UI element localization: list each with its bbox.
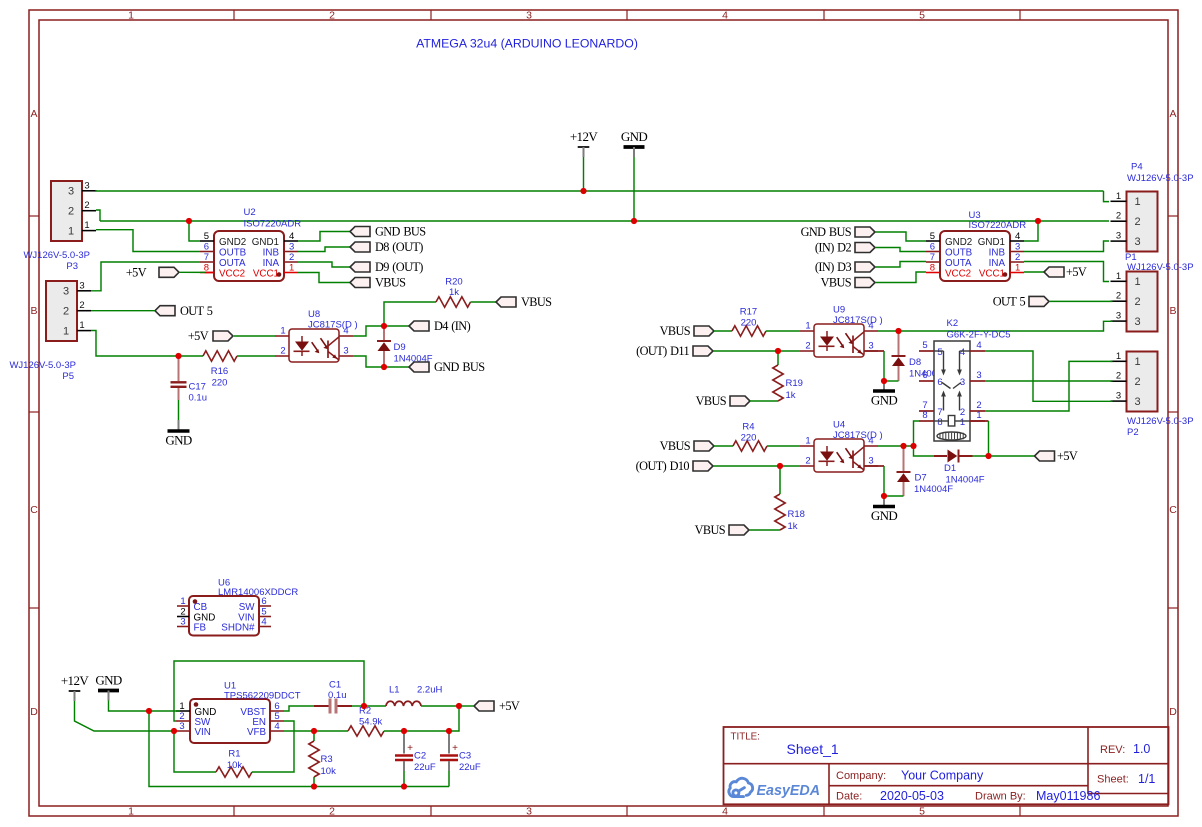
svg-text:TITLE:: TITLE:	[731, 732, 760, 743]
svg-text:2: 2	[1116, 291, 1121, 302]
svg-text:+5V: +5V	[188, 329, 209, 343]
svg-text:INB: INB	[263, 247, 280, 258]
wire VBUS to R4	[714, 445, 733, 447]
svg-text:R18: R18	[788, 509, 805, 520]
svg-text:+: +	[452, 743, 458, 754]
wire VBUS flag to R19	[750, 400, 778, 402]
svg-text:1: 1	[68, 225, 74, 237]
flag GND BUS right of D9	[409, 360, 485, 374]
diode D7	[903, 449, 905, 472]
svg-text:K2: K2	[947, 318, 959, 329]
svg-text:VBUS: VBUS	[821, 276, 852, 290]
svg-text:OUTA: OUTA	[219, 258, 246, 269]
flag VBUS at R17	[660, 324, 714, 338]
wire GND to U1 pin1	[109, 701, 181, 712]
svg-text:VFB: VFB	[247, 727, 267, 738]
svg-text:2: 2	[63, 306, 69, 318]
ground below D8	[883, 381, 885, 390]
svg-text:+12V: +12V	[570, 129, 599, 144]
svg-text:10k: 10k	[321, 766, 337, 777]
svg-text:B: B	[1169, 305, 1176, 317]
capacitor C3	[448, 731, 450, 754]
resistor R16	[203, 351, 237, 361]
wire U9 pin3 down	[864, 350, 884, 352]
svg-text:1: 1	[180, 596, 185, 607]
wire +5V flag to U8 pin1	[234, 335, 275, 337]
svg-text:OUTA: OUTA	[945, 258, 972, 269]
wire VIN to R1 feed	[174, 731, 216, 772]
svg-text:1: 1	[1134, 356, 1140, 368]
resistor R17	[732, 326, 766, 336]
svg-text:GND2: GND2	[219, 237, 246, 248]
svg-text:1: 1	[805, 436, 810, 447]
svg-text:Sheet:: Sheet:	[1097, 774, 1129, 786]
svg-text:220: 220	[212, 378, 228, 389]
svg-text:3: 3	[1116, 391, 1121, 402]
svg-text:EasyEDA: EasyEDA	[757, 783, 821, 799]
svg-text:2: 2	[68, 206, 74, 218]
resistor R20	[436, 297, 471, 307]
svg-text:C2: C2	[414, 751, 426, 762]
svg-text:OUTB: OUTB	[945, 247, 973, 258]
resistor R1	[216, 767, 252, 777]
svg-text:(OUT) D10: (OUT) D10	[636, 459, 690, 473]
svg-text:2: 2	[1015, 252, 1020, 263]
svg-text:GND: GND	[95, 673, 122, 688]
svg-text:3: 3	[526, 805, 532, 817]
svg-text:INB: INB	[989, 247, 1006, 258]
wire +5V node down to VFB row	[449, 706, 459, 731]
svg-text:1N4004F: 1N4004F	[394, 354, 433, 365]
svg-text:Drawn By:: Drawn By:	[975, 791, 1026, 803]
wire U8 pin3 to GND BUS row	[353, 356, 384, 367]
wire P5 pin2 to OUT5 flag	[91, 310, 155, 312]
svg-text:+5V: +5V	[499, 699, 520, 713]
svg-text:6: 6	[922, 370, 927, 381]
svg-text:3: 3	[63, 286, 69, 298]
svg-text:4: 4	[960, 347, 965, 358]
svg-text:GND: GND	[621, 129, 648, 144]
flag GND BUS right of U2	[350, 225, 426, 239]
optocoupler U8 JC817S	[289, 329, 339, 362]
svg-text:+5V: +5V	[1066, 265, 1087, 279]
wire +5V flag to U2 VCC2	[179, 271, 205, 273]
svg-text:2: 2	[805, 456, 810, 467]
svg-text:FB: FB	[194, 623, 207, 634]
svg-text:C1: C1	[329, 680, 341, 691]
wire R4 to U4 pin1	[767, 445, 800, 447]
wire D1 row	[914, 446, 935, 456]
svg-text:1: 1	[976, 410, 981, 421]
inductor L1	[386, 701, 421, 706]
svg-text:VCC1: VCC1	[979, 268, 1005, 279]
relay coil	[934, 420, 948, 422]
svg-text:1k: 1k	[449, 287, 459, 298]
svg-text:VCC2: VCC2	[945, 268, 971, 279]
wire node to flag	[459, 705, 474, 707]
svg-text:VBUS: VBUS	[660, 439, 691, 453]
resistor R2	[348, 726, 384, 736]
svg-text:3: 3	[1116, 231, 1121, 242]
wire D1 to +5V flag	[973, 455, 1035, 457]
svg-text:LMR14006XDDCR: LMR14006XDDCR	[218, 587, 298, 598]
svg-text:1: 1	[1116, 191, 1121, 202]
svg-text:2020-05-03: 2020-05-03	[880, 789, 944, 803]
svg-text:VBUS: VBUS	[660, 324, 691, 338]
svg-text:4: 4	[274, 721, 279, 732]
capacitor C1	[314, 705, 329, 707]
svg-text:WJ126V-5.0-3P: WJ126V-5.0-3P	[1127, 416, 1194, 427]
svg-text:GND1: GND1	[978, 237, 1005, 248]
wire U2 GND2 branch	[189, 221, 200, 241]
connector P4	[1127, 192, 1158, 252]
wire OUT5 to P1 pin2	[1049, 300, 1113, 302]
flag GND BUS left of U3	[801, 225, 875, 239]
svg-text:GND: GND	[871, 508, 898, 523]
svg-text:3: 3	[179, 721, 184, 732]
svg-text:VBUS: VBUS	[521, 295, 552, 309]
svg-text:4: 4	[722, 9, 728, 21]
flag (IN) D2	[815, 241, 875, 255]
flag +5V at U2 VCC2	[126, 266, 179, 280]
svg-text:3: 3	[1134, 396, 1140, 408]
resistor R3	[313, 731, 315, 741]
svg-text:0.1u: 0.1u	[328, 690, 347, 701]
flag VBUS at R18	[695, 523, 749, 537]
svg-text:D: D	[30, 706, 38, 718]
svg-text:6: 6	[930, 242, 935, 253]
svg-text:3: 3	[1134, 316, 1140, 328]
svg-text:(OUT) D11: (OUT) D11	[636, 344, 689, 358]
svg-text:P2: P2	[1127, 427, 1139, 438]
svg-text:1: 1	[128, 805, 134, 817]
svg-text:ISO7220ADR: ISO7220ADR	[244, 219, 302, 230]
svg-text:GND: GND	[871, 393, 898, 408]
svg-text:C: C	[30, 504, 38, 516]
wire +12V to U1 VIN	[75, 701, 177, 731]
relay contacts	[934, 350, 944, 352]
optocoupler U9 JC817S	[814, 324, 864, 357]
svg-text:3: 3	[868, 456, 873, 467]
flag D8 (OUT)	[350, 240, 423, 254]
wire R2 to caps	[384, 730, 449, 732]
flag D9 (OUT)	[350, 260, 423, 274]
svg-text:B: B	[30, 305, 37, 317]
wire P3 pin1 to U2 OUTB	[96, 230, 200, 252]
svg-text:7: 7	[204, 252, 209, 263]
svg-text:2: 2	[1134, 216, 1140, 228]
svg-text:R4: R4	[742, 422, 754, 433]
flag OUT 5 right side	[993, 295, 1049, 309]
svg-text:5: 5	[919, 805, 925, 817]
svg-text:0.1u: 0.1u	[189, 393, 208, 404]
svg-text:2: 2	[329, 9, 335, 21]
ground below C17	[178, 420, 180, 430]
wire GND BUS row to flag	[384, 366, 409, 368]
junction dots overlay	[580, 188, 586, 194]
wire U2 VCC1 to VBUS flag	[298, 273, 350, 283]
diode D8	[898, 331, 900, 356]
wire SW node to L1	[364, 705, 386, 707]
wire GND BUS to U3 GND2	[875, 232, 926, 241]
svg-text:U9: U9	[833, 305, 845, 316]
svg-text:OUT 5: OUT 5	[180, 304, 213, 318]
svg-text:U8: U8	[308, 309, 320, 320]
svg-text:3: 3	[868, 341, 873, 352]
svg-text:L1: L1	[389, 685, 400, 696]
svg-text:22uF: 22uF	[414, 762, 436, 773]
svg-text:R16: R16	[211, 366, 228, 377]
svg-text:1.0: 1.0	[1133, 742, 1150, 756]
svg-text:1: 1	[1116, 271, 1121, 282]
diode D1	[934, 455, 947, 457]
wire row2 down to U3 GND1	[1024, 221, 1038, 241]
wire VFB row	[284, 730, 348, 732]
wire C1 to SW node	[352, 705, 364, 707]
wire U9 row to P1 pin3	[899, 321, 1113, 331]
wire VBUS to R17	[714, 330, 732, 332]
connector P3	[51, 181, 82, 241]
svg-text:WJ126V-5.0-3P: WJ126V-5.0-3P	[23, 250, 90, 261]
IC U2 ISO7220ADR	[214, 231, 284, 281]
ground below D7	[883, 496, 885, 505]
svg-text:4: 4	[976, 340, 981, 351]
wire SW bootstrap loop	[174, 661, 364, 721]
svg-text:2: 2	[1134, 296, 1140, 308]
svg-text:ATMEGA 32u4 (ARDUINO LEONARDO): ATMEGA 32u4 (ARDUINO LEONARDO)	[416, 37, 638, 51]
svg-text:OUT 5: OUT 5	[993, 295, 1026, 309]
flag +5V output	[474, 699, 520, 713]
svg-text:2: 2	[1116, 371, 1121, 382]
svg-text:INA: INA	[263, 258, 280, 269]
svg-text:Your Company: Your Company	[901, 769, 984, 783]
svg-text:3: 3	[343, 346, 348, 357]
wire D10 flag to U4 pin2	[714, 465, 801, 467]
svg-text:GND2: GND2	[945, 237, 972, 248]
svg-text:2.2uH: 2.2uH	[417, 685, 442, 696]
wire U4 pin3 down	[864, 465, 884, 467]
wire K2 pin4 to P2 pin3	[985, 351, 1113, 401]
svg-text:WJ126V-5.0-3P: WJ126V-5.0-3P	[1127, 262, 1194, 273]
svg-text:R19: R19	[786, 378, 803, 389]
svg-text:2: 2	[805, 341, 810, 352]
resistor R4	[733, 441, 767, 451]
wire row1 to P4 pin1	[1104, 191, 1110, 202]
svg-text:G6K-2F-Y-DC5: G6K-2F-Y-DC5	[947, 330, 1011, 341]
resistor R18	[779, 466, 781, 494]
svg-text:1N4004F: 1N4004F	[914, 484, 953, 495]
svg-text:4: 4	[722, 805, 728, 817]
svg-text:7: 7	[930, 252, 935, 263]
svg-text:WJ126V-5.0-3P: WJ126V-5.0-3P	[9, 360, 76, 371]
svg-text:8: 8	[930, 263, 935, 274]
svg-text:1: 1	[1134, 196, 1140, 208]
flag (IN) D3	[815, 260, 875, 274]
svg-text:54.9k: 54.9k	[359, 717, 382, 728]
svg-text:1: 1	[805, 321, 810, 332]
wire D3 flag to U3 OUTA	[875, 262, 926, 268]
svg-text:5: 5	[919, 9, 925, 21]
wire P5 pin1 down to R16 row	[91, 331, 179, 357]
wire P3 pin3 to row1	[95, 190, 97, 191]
wire U3 INB to P4 pin3	[1024, 241, 1109, 252]
connector P2	[1127, 352, 1158, 412]
svg-text:D7: D7	[915, 473, 927, 484]
svg-text:5: 5	[937, 347, 942, 358]
svg-text:5: 5	[204, 231, 209, 242]
svg-text:SHDN#: SHDN#	[221, 623, 255, 634]
svg-text:D4 (IN): D4 (IN)	[434, 319, 471, 333]
diode D9	[383, 326, 385, 341]
wire L1 to +5V node	[421, 705, 459, 707]
wire D11 flag to U9 pin2	[714, 350, 801, 352]
wire VBUS flag to U3 VCC2	[875, 272, 926, 283]
wire K2 pin8 loop	[914, 421, 920, 446]
wire U2 INA to D9 flag	[298, 262, 350, 267]
svg-text:4: 4	[261, 617, 266, 628]
svg-text:1: 1	[960, 417, 965, 428]
svg-text:1: 1	[1134, 276, 1140, 288]
svg-text:+5V: +5V	[126, 266, 147, 280]
connector P1	[1127, 272, 1158, 332]
optocoupler U4 JC817S	[814, 439, 864, 472]
wire R1 to EN	[252, 721, 294, 772]
svg-text:A: A	[1169, 108, 1176, 120]
svg-text:1: 1	[63, 325, 69, 337]
svg-text:GND BUS: GND BUS	[801, 225, 852, 239]
wire K2 pin2 to P2 pin1	[985, 361, 1113, 411]
svg-text:1k: 1k	[788, 521, 798, 532]
wire D2 flag to U3 OUTB	[875, 248, 926, 252]
wire GND to row2	[633, 157, 635, 221]
wire U8 pin4 to D4 row	[353, 326, 384, 336]
svg-text:5: 5	[930, 231, 935, 242]
svg-text:GND: GND	[165, 433, 192, 448]
svg-text:1: 1	[280, 326, 285, 337]
wire ground rail	[149, 711, 449, 787]
connector P5	[46, 281, 77, 341]
svg-text:VCC2: VCC2	[219, 268, 245, 279]
svg-text:2: 2	[79, 300, 84, 311]
svg-text:1: 1	[1116, 351, 1121, 362]
wire dot to R16	[179, 355, 204, 357]
svg-text:SW: SW	[239, 602, 256, 613]
flag (OUT) D11	[636, 344, 713, 358]
IC U6 LMR14006XDDCR	[189, 596, 259, 636]
wire K2 pin3 to P2 pin2	[985, 380, 1113, 382]
svg-text:3: 3	[526, 9, 532, 21]
svg-text:C: C	[1169, 504, 1177, 516]
svg-text:May011986: May011986	[1036, 789, 1100, 803]
flag D4 (IN)	[409, 319, 471, 333]
svg-text:2: 2	[1116, 211, 1121, 222]
wire VBUS flag to R18	[750, 529, 781, 531]
svg-text:1: 1	[289, 263, 294, 274]
svg-text:Company:: Company:	[836, 770, 886, 782]
svg-text:REV:: REV:	[1100, 744, 1125, 756]
svg-text:3: 3	[84, 180, 89, 191]
svg-text:A: A	[30, 108, 37, 120]
svg-text:(IN) D2: (IN) D2	[815, 241, 852, 255]
svg-text:GND1: GND1	[252, 237, 279, 248]
wire D8 bottom to junction	[884, 380, 899, 382]
svg-text:INA: INA	[989, 258, 1006, 269]
svg-text:3: 3	[976, 370, 981, 381]
svg-text:4: 4	[289, 231, 294, 242]
svg-text:U2: U2	[244, 207, 256, 218]
svg-text:P5: P5	[62, 371, 74, 382]
wire U3 VCC1 to +5V flag	[1024, 271, 1044, 273]
resistor R19	[777, 351, 779, 365]
svg-text:3: 3	[79, 280, 84, 291]
capacitor C2	[403, 731, 405, 754]
wire VBST to C1	[284, 706, 314, 711]
svg-text:3: 3	[289, 242, 294, 253]
svg-text:4: 4	[1015, 231, 1020, 242]
svg-text:(IN) D3: (IN) D3	[815, 260, 852, 274]
svg-text:D9 (OUT): D9 (OUT)	[375, 260, 423, 274]
capacitor C17	[178, 356, 180, 381]
flag VBUS right of U2	[350, 276, 406, 290]
svg-text:6: 6	[937, 377, 942, 388]
wire U4 pin4 to junctions	[878, 445, 914, 447]
svg-text:8: 8	[937, 417, 942, 428]
svg-text:VCC1: VCC1	[253, 268, 279, 279]
svg-text:JC817S(D ): JC817S(D )	[833, 430, 883, 441]
wire U2 INB to D8 flag	[298, 247, 350, 252]
svg-text:1: 1	[128, 9, 134, 21]
svg-text:8: 8	[922, 410, 927, 421]
svg-text:P4: P4	[1131, 162, 1143, 173]
EasyEDA logo	[729, 778, 753, 796]
svg-text:1: 1	[84, 220, 89, 231]
wire K2 pin1 to +5V row	[970, 420, 989, 422]
svg-text:Date:: Date:	[836, 791, 862, 803]
wire P3 pin2 to row2	[96, 210, 100, 221]
svg-text:10k: 10k	[227, 760, 243, 771]
wire U3 INA to P1 pin1	[1024, 262, 1109, 282]
wire net row2	[100, 220, 1109, 222]
svg-text:VBUS: VBUS	[375, 276, 406, 290]
wire U2 GND1 to GND BUS flag	[298, 232, 350, 242]
svg-text:R20: R20	[445, 277, 462, 288]
svg-text:C17: C17	[189, 382, 206, 393]
IC U3 ISO7220ADR	[940, 231, 1010, 281]
svg-text:2: 2	[289, 252, 294, 263]
wire D4 row to flag	[384, 325, 409, 327]
svg-text:P3: P3	[66, 261, 78, 272]
svg-text:1: 1	[79, 320, 84, 331]
svg-text:6: 6	[204, 242, 209, 253]
wire +12V to row1	[583, 157, 585, 191]
flag VBUS at R19	[696, 394, 750, 408]
svg-text:1/1: 1/1	[1138, 772, 1155, 786]
wire R17 to U9 pin1	[766, 330, 800, 332]
svg-text:WJ126V-5.0-3P: WJ126V-5.0-3P	[1127, 173, 1194, 184]
flag VBUS left of U3	[821, 276, 875, 290]
svg-text:2: 2	[1134, 376, 1140, 388]
wire P5 pin3 to U2 OUTA	[91, 262, 200, 291]
flag +5V at U8 pin1	[188, 329, 233, 343]
flag OUT 5 left	[155, 304, 213, 318]
svg-text:+5V: +5V	[1057, 449, 1078, 463]
svg-text:1N4004F: 1N4004F	[946, 475, 985, 486]
svg-text:D1: D1	[944, 463, 956, 474]
svg-text:R17: R17	[740, 307, 757, 318]
svg-text:GND BUS: GND BUS	[434, 360, 485, 374]
flag +5V right of U3	[1044, 265, 1087, 279]
svg-text:C3: C3	[459, 751, 471, 762]
